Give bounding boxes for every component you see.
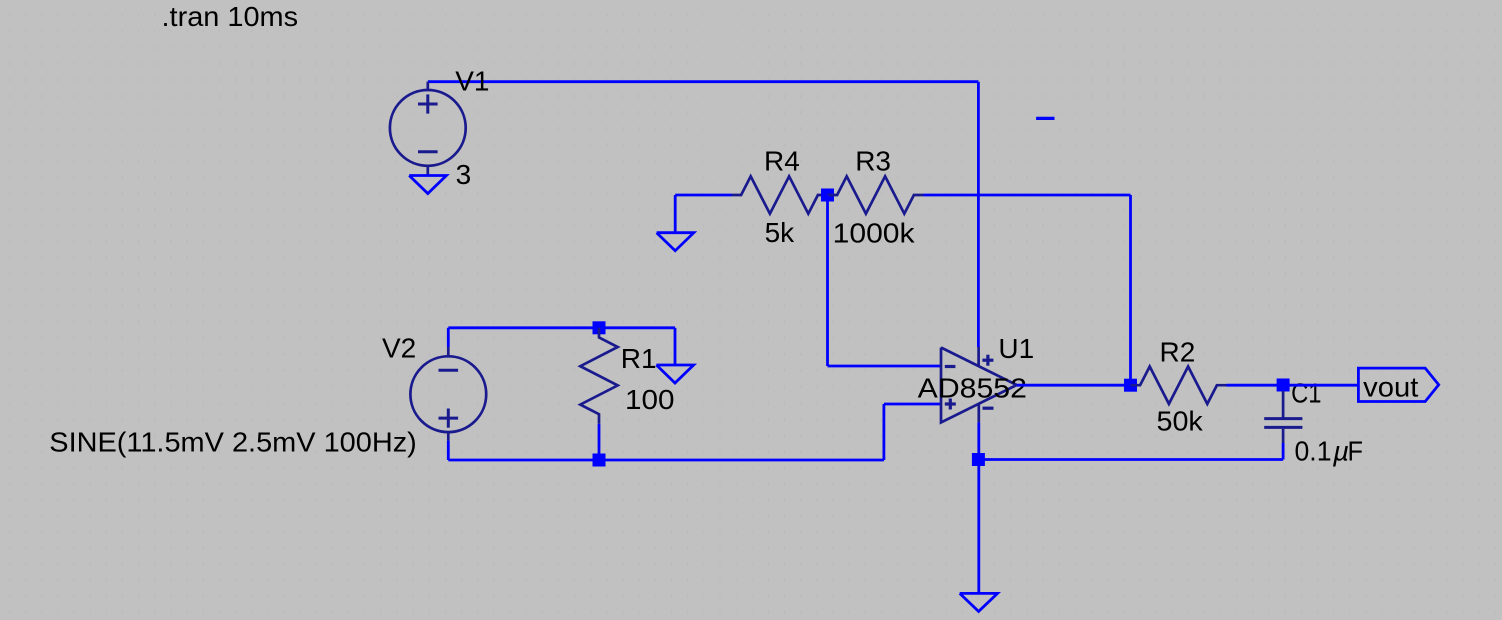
voltage source V2 stub top xyxy=(447,347,450,357)
ground (main) xyxy=(960,593,998,611)
resistor R4 xyxy=(732,176,828,213)
node C1 top junction xyxy=(1277,379,1290,392)
wire R2 to C1 xyxy=(1227,384,1285,387)
op-amp V+ pin stub xyxy=(977,347,980,366)
net flag vout xyxy=(1358,368,1438,403)
svg-text:R4: R4 xyxy=(764,146,800,177)
spice directive .tran xyxy=(162,1,299,32)
svg-text:.tran 10ms: .tran 10ms xyxy=(162,1,299,32)
wire gnd to R4 xyxy=(675,194,731,197)
svg-text:5k: 5k xyxy=(765,217,796,248)
label V2 xyxy=(382,332,416,363)
wire R1 gnd hop xyxy=(673,328,676,365)
value 3 xyxy=(456,159,472,190)
wire R1 bottom stub xyxy=(598,424,601,460)
wire bottom right rail xyxy=(978,458,1283,461)
svg-text:R3: R3 xyxy=(855,146,891,177)
value 50k xyxy=(1157,405,1204,436)
wire V2 bottom xyxy=(448,441,884,460)
label C1 xyxy=(1291,377,1321,408)
wire feedback drop xyxy=(1129,195,1132,385)
svg-text:SINE(11.5mV 2.5mV 100Hz): SINE(11.5mV 2.5mV 100Hz) xyxy=(49,426,417,457)
label SINE xyxy=(49,426,417,457)
svg-text:R1: R1 xyxy=(621,343,657,374)
op-amp V+ mark xyxy=(982,355,993,366)
wire V2 top xyxy=(448,328,674,347)
stray dash marker xyxy=(1036,117,1054,120)
wire R4 ground stub xyxy=(674,195,677,233)
label R4 xyxy=(764,146,800,177)
capacitor C1 plates xyxy=(1264,419,1302,428)
node R1 bottom xyxy=(593,454,606,467)
ground (V1) xyxy=(409,176,446,194)
wire R3 to feedback corner xyxy=(924,194,1131,197)
ground (R1) xyxy=(656,365,693,383)
wire to vout flag xyxy=(1284,384,1358,387)
capacitor C1 bottom stub xyxy=(1282,429,1285,443)
svg-text:R2: R2 xyxy=(1160,337,1196,368)
op-amp U1 triangle xyxy=(941,348,1017,423)
label U1 xyxy=(998,333,1034,364)
svg-text:100: 100 xyxy=(625,384,675,415)
capacitor C1 stub xyxy=(1282,391,1285,418)
svg-text:0.1: 0.1 xyxy=(1295,435,1332,466)
node output junction xyxy=(1124,379,1137,392)
wire V- supply drop xyxy=(977,422,980,593)
label V1 xyxy=(455,66,489,97)
voltage source V2 stub bottom xyxy=(447,432,450,441)
wire to non-inverting input xyxy=(884,404,941,460)
svg-text:1000k: 1000k xyxy=(833,217,916,248)
wire V+ supply drop xyxy=(977,82,980,347)
svg-text:V1: V1 xyxy=(455,66,489,97)
label R1 xyxy=(621,343,657,374)
label R2 xyxy=(1160,337,1196,368)
op-amp non-inverting mark xyxy=(945,399,956,410)
value 1000k xyxy=(833,217,916,248)
voltage source V2 xyxy=(410,356,486,432)
wire junction to inverting input xyxy=(828,195,942,366)
node R1 top xyxy=(593,321,606,334)
svg-text:C1: C1 xyxy=(1291,377,1321,408)
op-amp inverting mark xyxy=(945,365,956,368)
resistor R3 xyxy=(828,176,924,213)
svg-text:vout: vout xyxy=(1363,372,1418,403)
wire top rail xyxy=(428,80,979,83)
ground (R4) xyxy=(657,233,694,251)
node supply-rail junction xyxy=(972,453,985,466)
wire op-amp output xyxy=(1017,384,1131,387)
resistor R1 xyxy=(580,328,617,424)
svg-text:V2: V2 xyxy=(382,332,416,363)
voltage source V1 stub top xyxy=(426,82,429,91)
svg-text:U1: U1 xyxy=(998,333,1034,364)
op-amp V- pin stub xyxy=(977,404,980,422)
op-amp V- mark xyxy=(983,407,994,410)
value 0.1uF xyxy=(1295,435,1364,466)
svg-text:50k: 50k xyxy=(1157,405,1204,436)
value 5k xyxy=(765,217,796,248)
label AD8552 xyxy=(918,372,1027,403)
voltage source V1 xyxy=(390,90,466,166)
resistor R2 xyxy=(1131,367,1227,404)
label R3 xyxy=(855,146,891,177)
svg-text:F: F xyxy=(1348,435,1364,466)
svg-text:AD8552: AD8552 xyxy=(918,372,1027,403)
node junction R4-R3 xyxy=(821,189,834,202)
voltage source V1 stub bottom xyxy=(426,166,429,176)
svg-text:3: 3 xyxy=(456,159,472,190)
value 100 xyxy=(625,384,675,415)
wire C1 to bottom rail xyxy=(1282,443,1285,460)
